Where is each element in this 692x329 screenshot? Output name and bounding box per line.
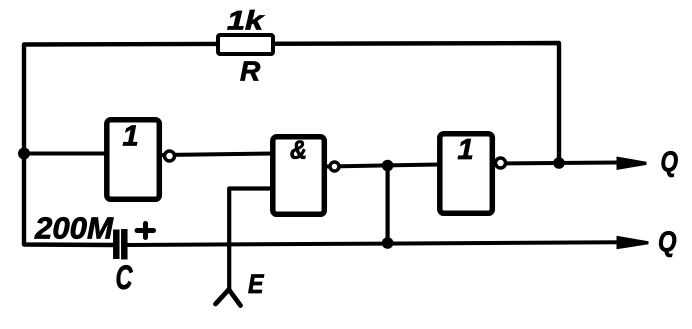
svg-text:Q: Q <box>658 227 677 259</box>
svg-text:1: 1 <box>123 121 139 153</box>
svg-text:C: C <box>116 259 133 297</box>
svg-text:R: R <box>240 56 261 87</box>
svg-text:&: & <box>290 135 307 165</box>
svg-text:E: E <box>248 269 264 299</box>
svg-text:Q: Q <box>661 147 679 179</box>
svg-text:1k: 1k <box>227 6 265 36</box>
svg-text:1: 1 <box>458 134 474 166</box>
svg-text:200M: 200M <box>34 211 114 246</box>
